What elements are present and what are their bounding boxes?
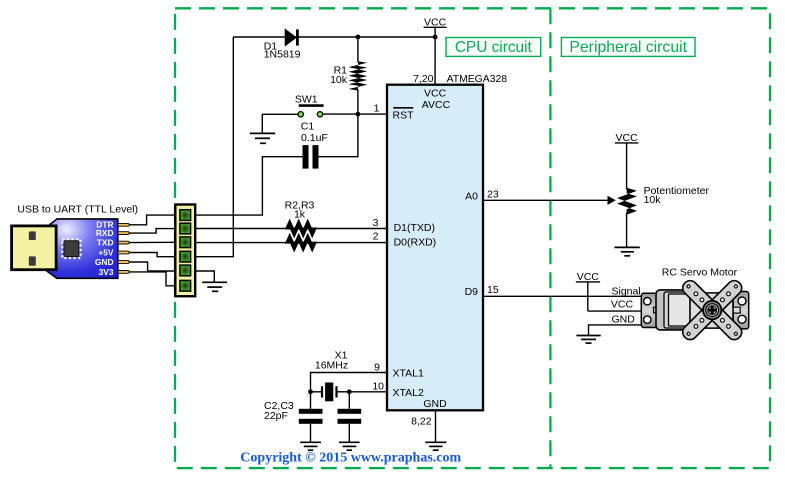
capacitor C2 xyxy=(299,392,323,442)
USB plug xyxy=(12,226,57,270)
svg-text:10k: 10k xyxy=(644,194,662,206)
RC servo motor drawing xyxy=(641,290,748,330)
dashed divider between CPU and Peripheral xyxy=(549,8,551,468)
VCC power symbol (pot) xyxy=(615,132,638,190)
svg-text:22pF: 22pF xyxy=(264,410,288,422)
CPU circuit label xyxy=(446,38,541,57)
ground (servo) xyxy=(576,336,600,344)
ground (header) xyxy=(202,282,227,291)
svg-text:+5V: +5V xyxy=(98,247,114,257)
op chip ATMEGA328 body xyxy=(387,85,483,411)
wire SW1 to ground xyxy=(262,114,298,133)
svg-text:USB to UART (TTL Level): USB to UART (TTL Level) xyxy=(17,203,138,215)
ground (chip GND) xyxy=(425,442,446,450)
svg-text:C1: C1 xyxy=(301,120,315,132)
capacitor C3 xyxy=(338,392,362,442)
svg-text:GND: GND xyxy=(95,257,114,267)
wire header pin3 to chip pin2 xyxy=(195,242,387,244)
svg-text:VCC: VCC xyxy=(424,87,447,99)
wire A0 to pot with arrow xyxy=(483,199,609,201)
node junction R1 top xyxy=(356,35,361,40)
svg-text:16MHz: 16MHz xyxy=(315,360,348,372)
wire servo VCC xyxy=(588,310,642,312)
svg-text:VCC: VCC xyxy=(616,132,639,144)
node junction VCC/chip xyxy=(433,35,438,40)
svg-text:SW1: SW1 xyxy=(295,93,318,105)
svg-text:Peripheral circuit: Peripheral circuit xyxy=(569,39,687,56)
svg-text:10k: 10k xyxy=(330,74,348,86)
ground (C2) xyxy=(300,442,321,450)
dashed frame CPU circuit box xyxy=(175,8,770,468)
wire C1 left to DTR header pin xyxy=(175,157,302,215)
svg-text:7,20: 7,20 xyxy=(413,73,434,85)
crystal X1 xyxy=(311,383,350,402)
wire module +5V to header xyxy=(129,253,176,257)
wire module GND to header xyxy=(129,262,176,271)
svg-text:RST: RST xyxy=(393,110,415,122)
svg-text:VCC: VCC xyxy=(611,298,634,310)
wire module 3V3 to header xyxy=(129,272,176,286)
wire module DTR to header xyxy=(129,215,176,225)
svg-text:GND: GND xyxy=(612,313,636,325)
svg-text:ATMEGA328: ATMEGA328 xyxy=(447,74,508,85)
node junction X1 left xyxy=(308,389,313,394)
module pins xyxy=(118,223,129,273)
VCC power symbol (servo) xyxy=(576,271,600,311)
svg-text:D9: D9 xyxy=(465,286,479,298)
wire pot to ground xyxy=(626,213,628,248)
servo right mount tab xyxy=(733,292,749,329)
wire C1 right to RST xyxy=(319,114,358,156)
module pin labels xyxy=(95,220,114,277)
Peripheral circuit label xyxy=(561,38,695,57)
wire servo GND xyxy=(589,325,642,335)
VCC power symbol top xyxy=(424,17,447,85)
diode D1 xyxy=(285,29,299,45)
switch SW1 xyxy=(295,93,324,117)
resistor R2 xyxy=(285,219,317,239)
wire header pin2 to chip pin3 xyxy=(195,228,387,230)
header yellow 6-pin xyxy=(175,205,195,297)
potentiometer 10k xyxy=(617,188,637,215)
resistor R3 xyxy=(285,233,317,253)
svg-text:3V3: 3V3 xyxy=(99,267,114,277)
svg-text:23: 23 xyxy=(487,188,499,200)
wire D9 to servo signal xyxy=(483,295,641,297)
svg-text:TXD: TXD xyxy=(97,238,114,248)
servo center section xyxy=(690,293,733,328)
svg-text:RC Servo Motor: RC Servo Motor xyxy=(662,267,738,279)
servo body xyxy=(656,290,687,330)
svg-text:D1(TXD): D1(TXD) xyxy=(394,222,435,234)
wire header pin5 to ground xyxy=(195,271,214,282)
wire module TXD to header xyxy=(129,241,176,243)
svg-text:3: 3 xyxy=(373,217,379,229)
ground (pot) xyxy=(614,247,639,255)
svg-text:8,22: 8,22 xyxy=(411,415,432,427)
capacitor C1 xyxy=(301,120,328,168)
wire top horizontal from +5V line to VCC xyxy=(233,36,435,38)
ground (C3) xyxy=(339,442,360,450)
svg-text:CPU circuit: CPU circuit xyxy=(455,39,533,56)
wire XTAL2 pin10 xyxy=(349,391,387,393)
wire RST net xyxy=(321,113,387,115)
svg-text:0.1uF: 0.1uF xyxy=(301,132,328,144)
svg-text:A0: A0 xyxy=(465,191,478,203)
USB-UART module board xyxy=(12,219,130,278)
svg-text:15: 15 xyxy=(487,284,499,296)
servo left mount tab xyxy=(641,293,658,327)
svg-text:D0(RXD): D0(RXD) xyxy=(394,237,437,249)
svg-text:1: 1 xyxy=(374,103,380,115)
wire chip GND pin xyxy=(435,410,437,442)
wire module RXD to header xyxy=(129,229,176,234)
svg-text:AVCC: AVCC xyxy=(422,99,451,111)
resistor R1 xyxy=(349,61,368,90)
svg-text:XTAL2: XTAL2 xyxy=(393,387,424,399)
svg-text:10: 10 xyxy=(372,381,384,393)
node junction RST/R1/C1 xyxy=(356,112,361,117)
svg-text:Copyright © 2015 www.praphas.c: Copyright © 2015 www.praphas.com xyxy=(240,451,461,466)
servo horn X xyxy=(658,256,767,365)
wire +5V vertical down to header pin4 xyxy=(175,37,233,257)
module chip xyxy=(62,239,80,258)
svg-text:Signal: Signal xyxy=(612,285,641,297)
svg-text:XTAL1: XTAL1 xyxy=(393,368,424,380)
svg-text:GND: GND xyxy=(423,398,447,410)
svg-text:RXD: RXD xyxy=(96,228,114,238)
svg-text:2: 2 xyxy=(373,231,379,243)
servo center screw xyxy=(703,301,721,319)
svg-text:1N5819: 1N5819 xyxy=(264,49,301,61)
svg-text:1k: 1k xyxy=(294,209,306,221)
node junction X1 right xyxy=(347,389,352,394)
svg-text:9: 9 xyxy=(374,361,380,373)
wire XTAL1 pin9 xyxy=(311,373,388,392)
ground (SW1) xyxy=(250,133,275,143)
